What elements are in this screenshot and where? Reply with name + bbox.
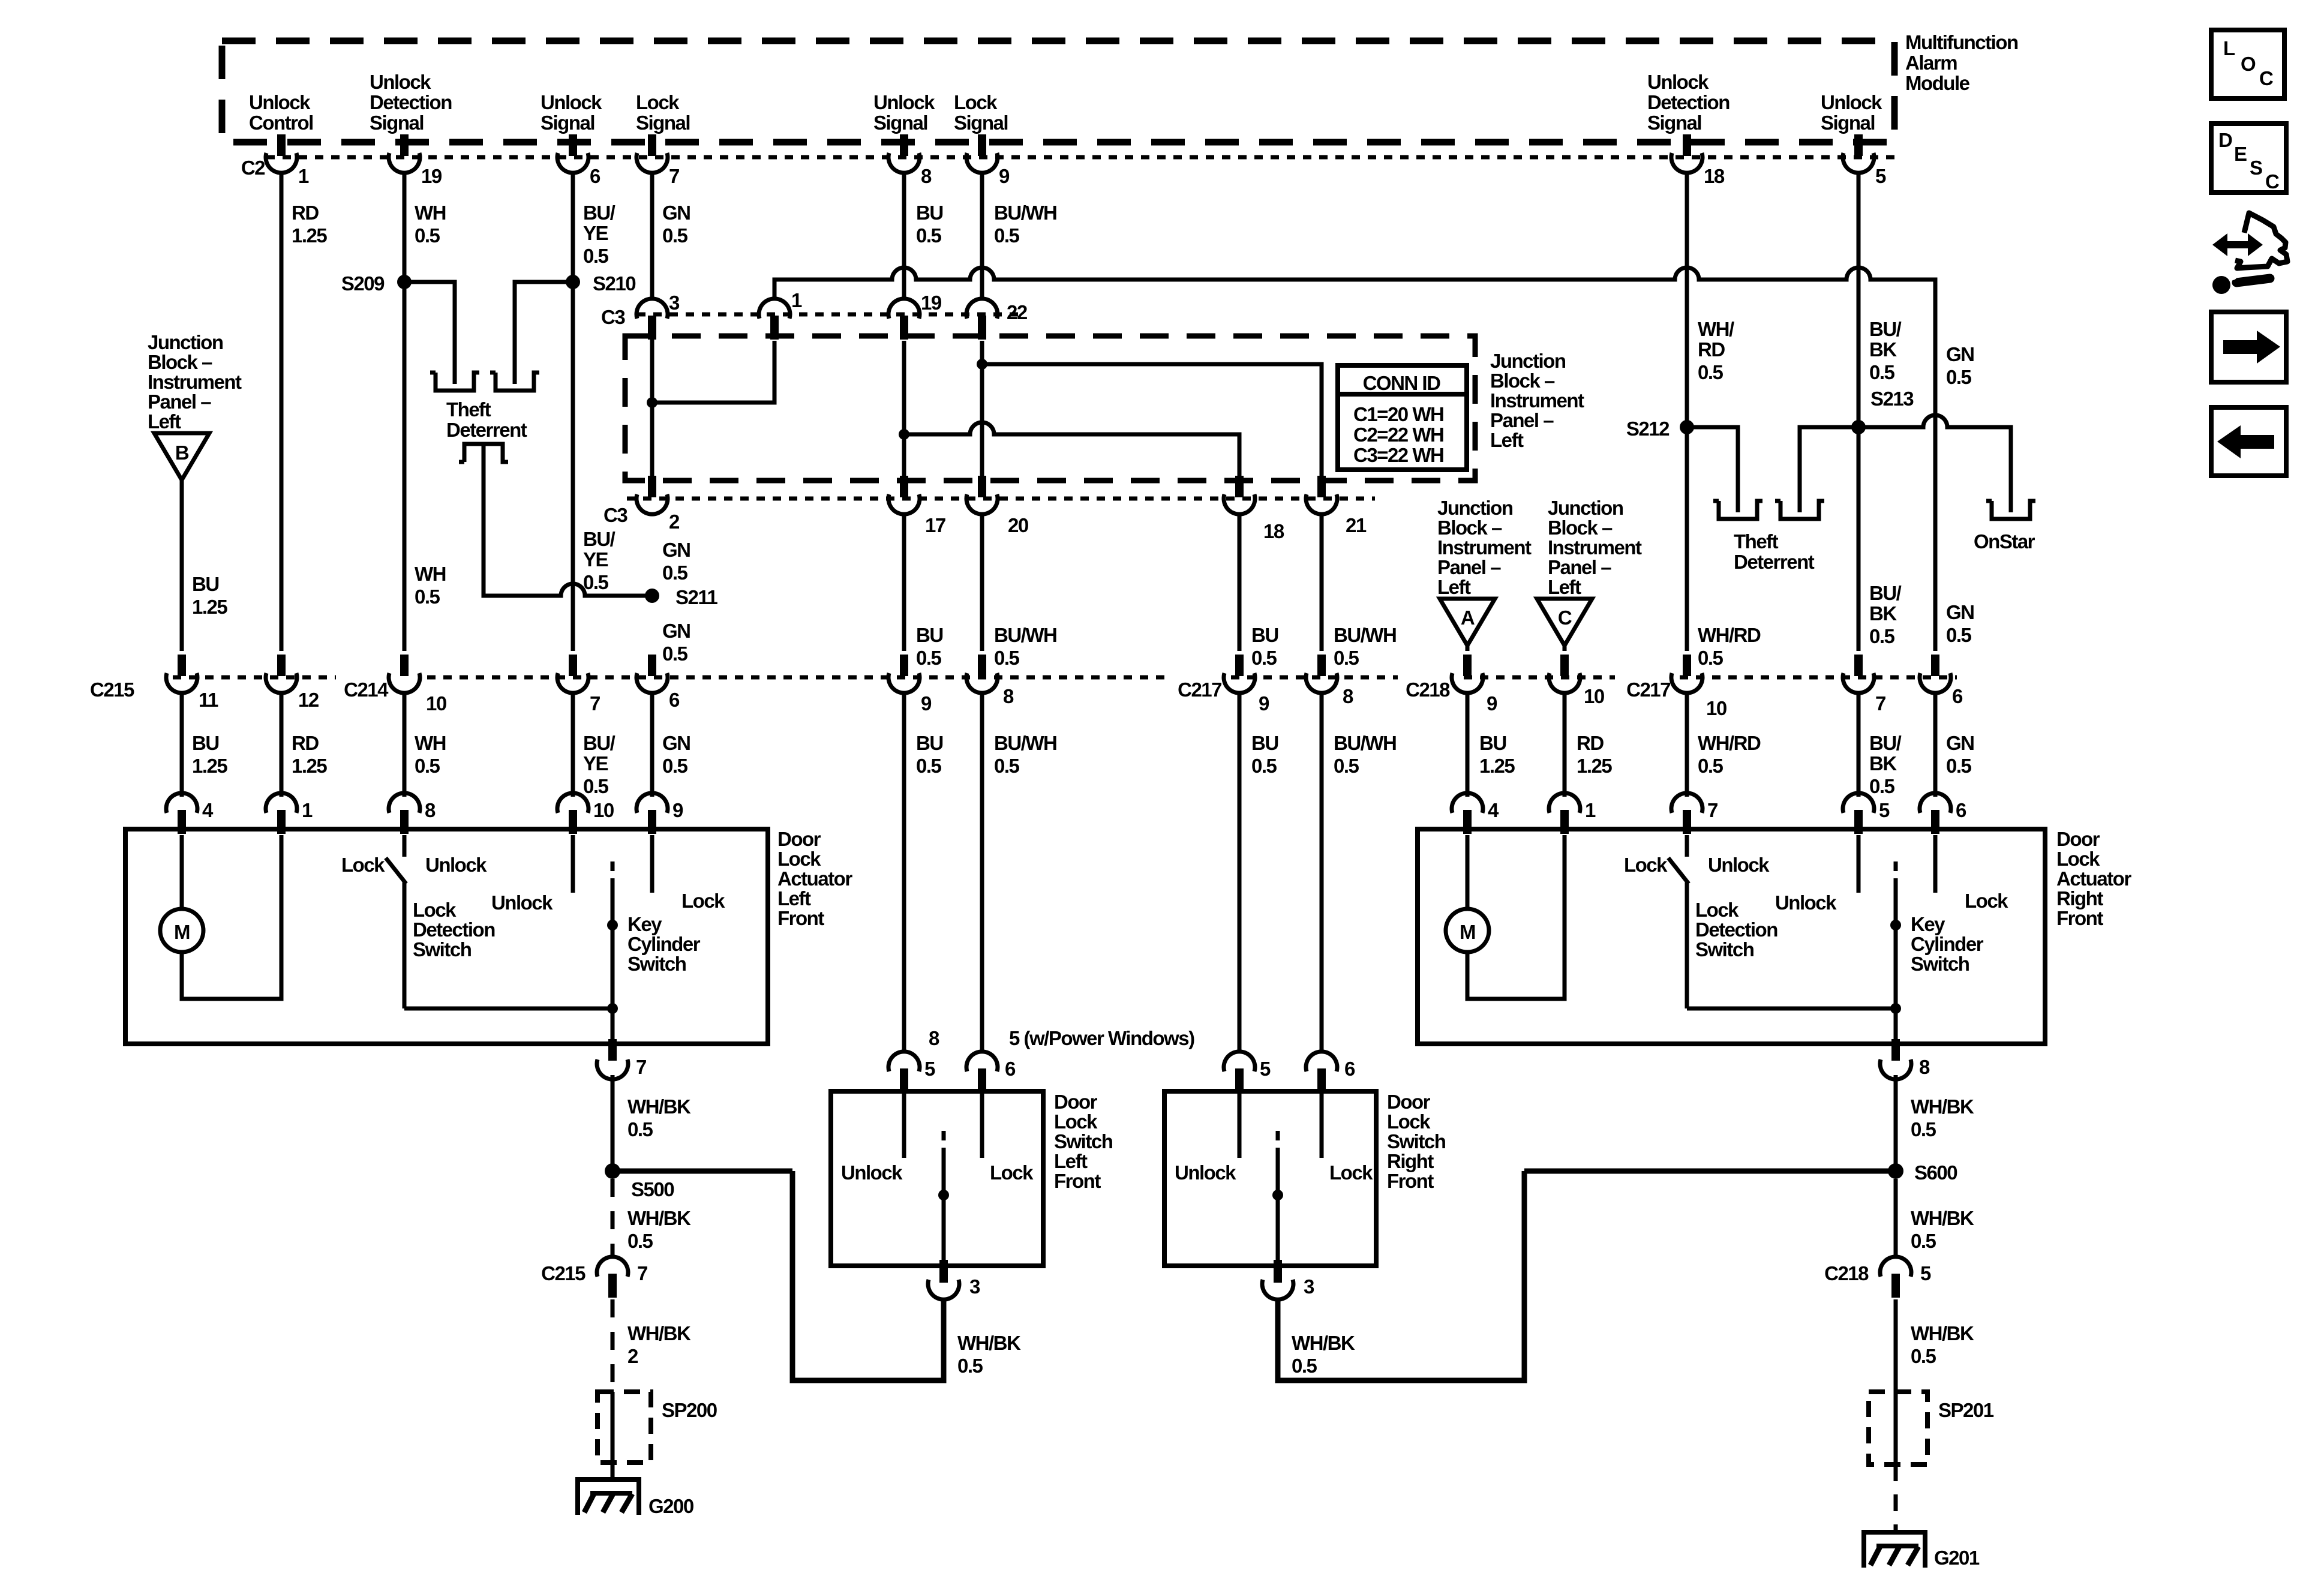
lever <box>386 858 406 884</box>
svg-text:Block –: Block – <box>1437 517 1502 539</box>
wire BU/WH 0.5 (C2-9 to C3-22) <box>980 172 984 300</box>
svg-text:Lock: Lock <box>636 91 680 113</box>
wire BU (C3-18 down) <box>1238 513 1242 651</box>
wire BU (C3-17 down) <box>902 513 906 651</box>
svg-text:1.25: 1.25 <box>1577 755 1612 777</box>
connector row C2 dotted line <box>266 155 1897 160</box>
svg-text:0.5: 0.5 <box>415 224 440 247</box>
svg-text:C214: C214 <box>344 679 389 701</box>
svg-text:0.5: 0.5 <box>1334 755 1359 777</box>
svg-text:BU/WH: BU/WH <box>994 202 1056 224</box>
lock detection switch left <box>403 835 407 857</box>
connector C218 pin 5 (chain) <box>1880 1257 1911 1298</box>
wire GN 0.5 (C217-6 to actuator) <box>1933 692 1938 797</box>
svg-text:10: 10 <box>593 799 614 821</box>
svg-text:5: 5 <box>924 1058 935 1080</box>
connector actuator right pin 1 <box>1549 793 1580 834</box>
connector actuator left pin 8 <box>389 793 420 834</box>
svg-text:YE: YE <box>583 752 608 775</box>
svg-text:C218: C218 <box>1824 1262 1869 1284</box>
svg-text:WH: WH <box>415 202 446 224</box>
svg-text:Signal: Signal <box>370 112 424 134</box>
svg-text:8: 8 <box>1003 685 1014 707</box>
svg-text:Panel –: Panel – <box>148 391 211 413</box>
svg-text:Lock: Lock <box>1387 1110 1431 1133</box>
connector C3 pin 19 <box>888 299 920 340</box>
svg-text:1: 1 <box>791 289 802 311</box>
svg-text:G200: G200 <box>648 1495 693 1517</box>
svg-text:Module: Module <box>1905 72 1970 94</box>
svg-text:BU/: BU/ <box>583 732 615 754</box>
svg-text:Signal: Signal <box>873 112 927 134</box>
key cylinder switch left <box>611 861 615 878</box>
svg-text:C3=22 WH: C3=22 WH <box>1353 444 1443 466</box>
wire SP201 to G201 dashed <box>1894 1464 1898 1531</box>
svg-text:0.5: 0.5 <box>1911 1118 1936 1140</box>
svg-text:1: 1 <box>302 799 313 821</box>
connector C2 pin 9 <box>966 134 998 173</box>
svg-text:GN: GN <box>1946 343 1974 365</box>
theft deterrent bracket left (right side) <box>1713 501 1762 519</box>
svg-text:5 (w/Power Windows): 5 (w/Power Windows) <box>1009 1027 1194 1049</box>
connector row C215/C214/C217/C218 dotted line <box>173 676 336 680</box>
svg-text:GN: GN <box>662 732 690 754</box>
svg-text:WH/BK: WH/BK <box>1911 1322 1974 1344</box>
svg-text:Signal: Signal <box>541 112 594 134</box>
svg-text:YE: YE <box>583 548 608 571</box>
svg-text:9: 9 <box>1259 692 1269 715</box>
svg-text:Switch: Switch <box>1054 1130 1113 1152</box>
svg-text:8: 8 <box>425 799 436 821</box>
lock contact wire left <box>650 835 654 893</box>
svg-text:1.25: 1.25 <box>192 755 227 777</box>
svg-text:Unlock: Unlock <box>841 1161 903 1184</box>
wire BU 1.25 (triangle B to C215-11) <box>180 480 184 651</box>
svg-text:Unlock: Unlock <box>491 891 553 914</box>
svg-text:Junction: Junction <box>1548 497 1623 519</box>
svg-text:Lock: Lock <box>1054 1110 1098 1133</box>
svg-text:BU: BU <box>916 732 943 754</box>
svg-text:G201: G201 <box>1934 1547 1980 1569</box>
svg-text:B: B <box>175 442 189 464</box>
svg-text:S212: S212 <box>1626 418 1670 440</box>
svg-text:0.5: 0.5 <box>994 647 1020 669</box>
wire WH 0.5 (C2-19 to C214-10) <box>403 172 407 651</box>
splice S500 <box>605 1163 620 1179</box>
svg-text:Control: Control <box>249 112 313 134</box>
theft deterrent return bracket <box>459 444 508 462</box>
svg-text:BU: BU <box>916 202 943 224</box>
splice S210 <box>566 275 580 289</box>
svg-text:0.5: 0.5 <box>916 755 942 777</box>
svg-text:Block –: Block – <box>148 351 212 373</box>
connector actuator right pin 4 <box>1452 793 1483 834</box>
node on pin3 wire <box>647 397 657 408</box>
svg-text:GN: GN <box>662 202 690 224</box>
switch left contacts <box>902 1094 906 1158</box>
svg-text:7: 7 <box>637 1262 647 1284</box>
svg-text:RD: RD <box>1698 338 1725 361</box>
svg-text:Door: Door <box>1387 1091 1431 1113</box>
multifunction alarm module box <box>222 41 1894 142</box>
svg-text:0.5: 0.5 <box>1334 647 1359 669</box>
svg-text:Front: Front <box>1054 1170 1101 1192</box>
wire S600 horizontal <box>1524 1169 1896 1174</box>
svg-text:3: 3 <box>969 1275 980 1298</box>
svg-text:Left: Left <box>1548 576 1581 598</box>
connector C3 pin 22 <box>966 299 998 340</box>
svg-text:7: 7 <box>1707 799 1718 821</box>
CONN ID table <box>1338 365 1467 470</box>
svg-text:Unlock: Unlock <box>541 91 602 113</box>
svg-text:WH: WH <box>415 732 446 754</box>
svg-text:Lock: Lock <box>681 890 725 912</box>
connector switch left pin 5 <box>888 1052 920 1092</box>
svg-text:Signal: Signal <box>636 112 690 134</box>
svg-text:0.5: 0.5 <box>583 245 609 267</box>
svg-text:0.5: 0.5 <box>1946 755 1972 777</box>
svg-text:Right: Right <box>1387 1150 1434 1172</box>
wire BU/WH 0.5 (C217-8 to switch) <box>1320 692 1324 1053</box>
wire triangle A to C218-9 <box>1466 646 1470 651</box>
svg-text:22: 22 <box>1007 301 1028 323</box>
svg-text:0.5: 0.5 <box>583 775 609 797</box>
theft deterrent bracket right (right side) <box>1775 501 1824 519</box>
svg-text:Left: Left <box>1490 429 1524 451</box>
connector C217 pin 8 <box>1306 655 1337 693</box>
svg-text:C215: C215 <box>90 679 134 701</box>
svg-text:C218: C218 <box>1406 679 1450 701</box>
svg-text:Cylinder: Cylinder <box>627 933 701 955</box>
svg-text:Junction: Junction <box>148 331 223 353</box>
key cylinder switch right <box>1894 861 1898 878</box>
wire lock detection to key cylinder <box>404 1007 612 1011</box>
svg-text:20: 20 <box>1008 514 1028 536</box>
svg-text:1: 1 <box>1585 799 1596 821</box>
wire BU/BK 0.5 (C217-7 to actuator) <box>1857 692 1861 797</box>
svg-text:S600: S600 <box>1914 1161 1957 1184</box>
svg-text:A: A <box>1461 607 1475 629</box>
svg-text:0.5: 0.5 <box>1698 755 1724 777</box>
svg-text:Lock: Lock <box>1329 1161 1373 1184</box>
svg-text:Signal: Signal <box>954 112 1008 134</box>
svg-text:Left: Left <box>1437 576 1471 598</box>
connector C3 pin 21 <box>1306 476 1337 514</box>
svg-text:M: M <box>174 921 190 943</box>
svg-text:0.5: 0.5 <box>1869 625 1895 647</box>
connector row C3 (upper) dotted line <box>637 313 1020 317</box>
connector C218 pin 10 <box>1549 655 1580 693</box>
svg-text:6: 6 <box>1344 1058 1355 1080</box>
svg-text:0.5: 0.5 <box>1292 1355 1317 1377</box>
door lock switch right front box <box>1164 1091 1376 1266</box>
splice S212 <box>1680 420 1694 434</box>
svg-text:0.5: 0.5 <box>627 1230 653 1252</box>
wire WH/BK to S500 <box>611 1075 615 1171</box>
wire WH/BK from switch right <box>1278 1171 1524 1380</box>
connector switch right pin 6 <box>1306 1052 1337 1092</box>
svg-text:SP200: SP200 <box>662 1399 717 1421</box>
ground G201 <box>1861 1530 1927 1568</box>
svg-text:GN: GN <box>662 620 690 642</box>
svg-text:C2: C2 <box>241 157 265 179</box>
connector C214 pin 6 <box>636 655 668 693</box>
long horizontal wire from C3-1 to GN right column <box>774 268 1935 651</box>
svg-text:C1=20 WH: C1=20 WH <box>1353 403 1443 425</box>
svg-text:1.25: 1.25 <box>1479 755 1515 777</box>
svg-text:BK: BK <box>1869 752 1897 775</box>
svg-text:C217: C217 <box>1626 679 1670 701</box>
icon service glyph outline <box>2235 213 2287 268</box>
door lock actuator right front box <box>1418 829 2045 1044</box>
wire C215-7 to SP200 dashed <box>611 1299 615 1392</box>
svg-text:Lock: Lock <box>990 1161 1034 1184</box>
svg-text:M: M <box>1460 921 1475 943</box>
svg-text:1.25: 1.25 <box>292 755 327 777</box>
svg-text:19: 19 <box>421 165 442 187</box>
svg-text:Theft: Theft <box>1734 530 1779 553</box>
svg-text:OnStar: OnStar <box>1974 530 2035 553</box>
svg-text:C: C <box>1558 607 1572 629</box>
svg-text:12: 12 <box>298 689 319 711</box>
svg-text:19: 19 <box>921 292 942 314</box>
connector C217 pin 9 <box>1224 655 1255 693</box>
svg-text:O: O <box>2241 53 2256 75</box>
svg-text:10: 10 <box>1706 697 1727 719</box>
svg-text:3: 3 <box>669 292 680 314</box>
svg-text:BU: BU <box>1251 732 1278 754</box>
wire S210 to theft deterrent <box>515 282 573 384</box>
svg-text:6: 6 <box>1952 685 1963 707</box>
svg-text:WH/BK: WH/BK <box>627 1322 691 1344</box>
svg-text:WH/BK: WH/BK <box>1911 1095 1974 1118</box>
wire S500 horizontal <box>612 1169 792 1174</box>
svg-text:S210: S210 <box>593 272 635 295</box>
svg-text:C3: C3 <box>601 306 625 328</box>
svg-text:Front: Front <box>777 907 824 929</box>
svg-text:Deterrent: Deterrent <box>446 419 527 441</box>
connector pin 8 below right actuator <box>1891 1039 1900 1061</box>
svg-text:0.5: 0.5 <box>1946 366 1972 388</box>
svg-text:BU/WH: BU/WH <box>1334 732 1396 754</box>
wire BU/WH (C3-20 down) <box>980 513 984 651</box>
lever right <box>1668 858 1689 884</box>
svg-text:Unlock: Unlock <box>370 71 431 93</box>
svg-text:10: 10 <box>426 692 446 715</box>
wire WH/RD 0.5 (C217-10 to actuator) <box>1685 692 1689 797</box>
svg-text:Door: Door <box>777 828 821 850</box>
svg-text:2: 2 <box>669 511 680 533</box>
svg-text:Block –: Block – <box>1490 370 1555 392</box>
svg-text:Switch: Switch <box>413 938 472 960</box>
icon arrow left box <box>2211 407 2286 476</box>
svg-text:WH: WH <box>415 563 446 585</box>
connector C217 pin 6 <box>1920 655 1951 693</box>
svg-text:Unlock: Unlock <box>873 91 935 113</box>
door lock switch left front box <box>831 1091 1043 1266</box>
svg-text:18: 18 <box>1704 165 1725 187</box>
unlock contact wire left <box>571 835 575 893</box>
svg-text:4: 4 <box>1488 799 1499 821</box>
svg-text:Lock: Lock <box>341 854 385 876</box>
svg-text:BU/: BU/ <box>583 202 615 224</box>
svg-text:BU/WH: BU/WH <box>1334 624 1396 646</box>
svg-text:Alarm: Alarm <box>1905 52 1957 74</box>
connector switch right pin 5 <box>1224 1052 1255 1092</box>
svg-text:WH/BK: WH/BK <box>1911 1207 1974 1229</box>
svg-text:BU: BU <box>916 624 943 646</box>
connector actuator right pin 6 <box>1920 793 1951 834</box>
connector C2 pin 5 <box>1843 134 1874 173</box>
connector actuator left pin 9 <box>636 793 668 834</box>
node on pin22 wire <box>977 359 987 370</box>
svg-text:1.25: 1.25 <box>292 224 327 247</box>
connector C215 pin 12 <box>266 655 297 693</box>
svg-text:0.5: 0.5 <box>1251 647 1277 669</box>
wire M loop to pin 1 right <box>1467 835 1565 999</box>
svg-text:0.5: 0.5 <box>1911 1345 1936 1367</box>
svg-text:0.5: 0.5 <box>1698 647 1724 669</box>
svg-text:Detection: Detection <box>413 918 495 941</box>
svg-text:WH/RD: WH/RD <box>1698 624 1761 646</box>
connector C217 pin 7 <box>1843 655 1874 693</box>
svg-text:Instrument: Instrument <box>1548 536 1642 559</box>
connector C3 pin 3 <box>636 299 668 340</box>
wire RD 1.25 (C2-1 to C215-12) <box>280 172 284 651</box>
svg-text:S211: S211 <box>675 586 717 608</box>
svg-text:0.5: 0.5 <box>662 643 688 665</box>
svg-text:BU/: BU/ <box>1869 318 1902 340</box>
svg-text:BU: BU <box>1479 732 1506 754</box>
svg-text:BU/WH: BU/WH <box>994 732 1056 754</box>
svg-text:S213: S213 <box>1870 388 1914 410</box>
svg-text:L: L <box>2223 37 2235 59</box>
wire GN 0.5 (C214-6 to actuator) <box>650 692 654 797</box>
svg-text:7: 7 <box>1875 692 1885 715</box>
svg-text:Lock: Lock <box>413 899 457 921</box>
wire C3-3 to C3-2 through junction block <box>650 336 654 476</box>
icon DESC box <box>2211 124 2286 193</box>
wire S213 to OnStar <box>1858 415 2011 512</box>
splice S600 <box>1888 1163 1903 1179</box>
svg-text:Detection: Detection <box>370 91 452 113</box>
svg-text:6: 6 <box>669 689 680 711</box>
svg-text:7: 7 <box>669 165 679 187</box>
motor M right <box>1466 835 1470 909</box>
svg-text:Front: Front <box>2056 907 2103 929</box>
svg-text:GN: GN <box>662 539 690 561</box>
wire BU/YE 0.5 (C2-6 to C214-7) <box>571 172 575 651</box>
svg-text:0.5: 0.5 <box>1869 775 1895 797</box>
svg-text:Right: Right <box>2056 887 2103 909</box>
node on pin19 wire <box>899 429 909 440</box>
wire M loop to pin 1 <box>182 835 281 999</box>
svg-text:YE: YE <box>583 222 608 244</box>
svg-text:Lock: Lock <box>777 848 821 870</box>
svg-text:RD: RD <box>1577 732 1604 754</box>
wire WH/BK from switch left <box>792 1171 944 1380</box>
svg-text:Lock: Lock <box>1965 890 2008 912</box>
connector C214 pin 7 <box>557 655 588 693</box>
svg-text:0.5: 0.5 <box>583 571 609 593</box>
svg-text:S: S <box>2250 157 2262 179</box>
connector C3 pin 17 <box>888 476 920 514</box>
svg-text:10: 10 <box>1584 685 1604 707</box>
connector C2 pin 18 <box>1671 134 1703 173</box>
svg-text:Instrument: Instrument <box>1437 536 1532 559</box>
svg-text:0.5: 0.5 <box>1698 361 1724 383</box>
svg-text:Signal: Signal <box>1647 112 1701 134</box>
svg-text:Junction: Junction <box>1437 497 1513 519</box>
wire S209 to theft deterrent <box>404 282 455 384</box>
wire BU/BK 0.5 (C2-5 to C217-7) <box>1857 172 1861 651</box>
connector row C3 (lower) dotted line <box>627 497 1375 501</box>
connector C215 pin 11 <box>166 655 197 693</box>
svg-text:SP201: SP201 <box>1938 1399 1994 1421</box>
svg-text:Lock: Lock <box>1624 854 1668 876</box>
splice S211 <box>645 589 659 603</box>
svg-text:C215: C215 <box>541 1262 585 1284</box>
svg-text:3: 3 <box>1304 1275 1314 1298</box>
svg-text:5: 5 <box>1875 165 1886 187</box>
svg-text:18: 18 <box>1263 520 1284 542</box>
connector C3 pin 2 <box>636 476 668 514</box>
wire BU 0.5 (C2-8 to C3-19) <box>902 172 906 300</box>
svg-text:BU/: BU/ <box>583 528 615 550</box>
wire BU 0.5 (C215-9 to switch) <box>902 692 906 1053</box>
svg-text:GN: GN <box>1946 601 1974 623</box>
svg-text:Front: Front <box>1387 1170 1434 1192</box>
svg-text:Actuator: Actuator <box>2056 867 2131 890</box>
switch right contacts <box>1238 1094 1242 1158</box>
svg-text:8: 8 <box>1919 1056 1930 1078</box>
connector C217 pin 10 <box>1671 655 1703 693</box>
svg-text:5: 5 <box>1920 1262 1931 1284</box>
connector pin 7 below left actuator <box>608 1039 617 1061</box>
svg-text:C2=22 WH: C2=22 WH <box>1353 424 1443 446</box>
wire RD 1.25 (C218-10 to actuator) <box>1563 692 1567 797</box>
splice pack SP200 <box>597 1392 651 1463</box>
svg-text:0.5: 0.5 <box>662 562 688 584</box>
wire WH/RD 0.5 (C2-18 to C217-10) <box>1685 172 1689 651</box>
svg-text:WH/BK: WH/BK <box>957 1332 1021 1354</box>
connector C215 pin 9 (BU) <box>888 655 920 693</box>
svg-text:Lock: Lock <box>1695 899 1739 921</box>
svg-text:RD: RD <box>292 202 319 224</box>
icon arrow right box <box>2211 312 2286 382</box>
lock contact wire right <box>1933 835 1938 893</box>
svg-text:9: 9 <box>1487 692 1497 715</box>
connector C215 pin 7 (chain) <box>597 1257 628 1298</box>
svg-text:Unlock: Unlock <box>425 854 487 876</box>
wire BU 0.5 (C217-9 to switch) <box>1238 692 1242 1053</box>
svg-text:Panel –: Panel – <box>1437 556 1501 578</box>
junction block triangle A <box>1440 599 1495 646</box>
svg-text:Instrument: Instrument <box>148 371 242 393</box>
svg-text:Unlock: Unlock <box>1647 71 1709 93</box>
wire through SP200 to ground <box>611 1392 615 1479</box>
svg-text:Left: Left <box>1054 1150 1088 1172</box>
svg-text:6: 6 <box>1956 799 1966 821</box>
svg-text:Signal: Signal <box>1821 112 1875 134</box>
connector switch left pin 6 <box>966 1052 998 1092</box>
wire triangle C to C218-10 <box>1563 646 1567 651</box>
svg-text:0.5: 0.5 <box>627 1118 653 1140</box>
icon service glyph double arrow <box>2212 233 2263 256</box>
junction block dashed box <box>625 336 1475 481</box>
svg-text:17: 17 <box>925 514 945 536</box>
wire BU 1.25 (C215-11 to actuator) <box>180 692 184 797</box>
